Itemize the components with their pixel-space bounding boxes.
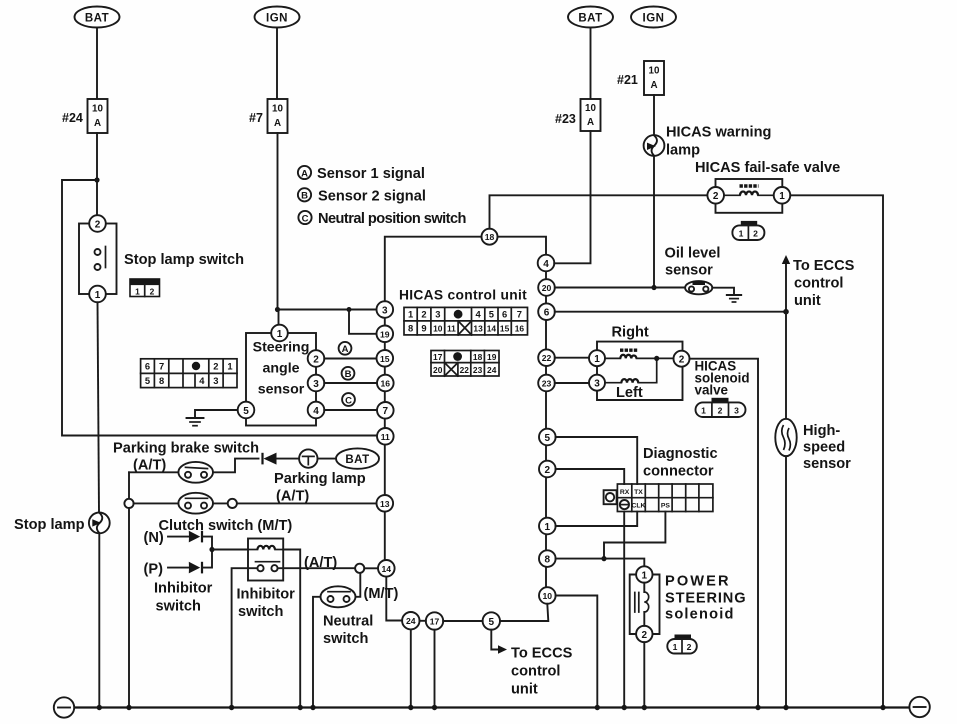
pin 8 (539, 550, 556, 567)
solenoid valve pin 1 (589, 350, 605, 366)
svg-text:BAT: BAT (85, 13, 109, 25)
svg-text:sensor: sensor (665, 263, 713, 279)
signal label C on wire (342, 393, 355, 406)
(P) diode (144, 550, 213, 578)
svg-text:20: 20 (433, 365, 443, 375)
svg-text:2: 2 (687, 642, 692, 652)
POWER STEERING solenoid box (630, 575, 660, 635)
connector circle (clutch line left) (124, 499, 133, 508)
svg-text:17: 17 (433, 352, 443, 362)
stop lamp switch connector 1 2 (130, 279, 160, 297)
wire ECCS line down to high-speed sensor (785, 312, 787, 420)
parking brake switch label (113, 441, 259, 474)
svg-text:23: 23 (542, 379, 552, 389)
svg-text:3: 3 (734, 406, 739, 416)
wire stop lamp to ground bus (98, 533, 100, 707)
wire pin 18 right down to pin 4 (498, 237, 547, 255)
HICAS warning lamp (644, 125, 772, 159)
wire sensor pin 3 to pin 16 (324, 382, 377, 384)
svg-text:1: 1 (739, 229, 744, 239)
svg-text:BAT: BAT (345, 454, 369, 466)
svg-text:High-: High- (803, 423, 840, 439)
pin 7 (377, 402, 394, 419)
svg-text:10: 10 (649, 66, 660, 77)
fuse #21 10A (617, 61, 664, 95)
svg-text:HICAS control unit: HICAS control unit (399, 288, 527, 303)
svg-text:10: 10 (92, 104, 103, 115)
svg-text:10: 10 (585, 103, 596, 114)
wire node to control unit pin 3 (278, 309, 377, 311)
wire node down to sensor pin 1 (278, 310, 280, 326)
wire pin 5 to TX (556, 437, 638, 484)
svg-text:switch: switch (238, 604, 283, 620)
svg-text:1: 1 (642, 570, 648, 581)
ground bus (74, 706, 909, 708)
svg-text:10: 10 (543, 591, 553, 601)
pin 22 (538, 349, 555, 366)
svg-text:1: 1 (673, 642, 678, 652)
signal label A on wire (339, 342, 352, 355)
pin 19 (377, 326, 394, 343)
svg-text:speed: speed (803, 440, 845, 456)
circle 17 (426, 612, 443, 629)
HICAS solenoid valve box (597, 342, 683, 400)
circle 5 (bottom) (483, 612, 500, 629)
(N) diode (144, 530, 213, 550)
control unit connector table 2 (pins 17-24) (431, 351, 499, 377)
wire oil level sensor to ground (712, 288, 734, 295)
svg-text:Clutch switch (M/T): Clutch switch (M/T) (159, 518, 293, 534)
parking brake switch symbol (178, 462, 213, 483)
pin 4 (538, 255, 555, 272)
svg-text:HICAS fail-safe valve: HICAS fail-safe valve (695, 160, 840, 176)
svg-text:14: 14 (487, 323, 497, 333)
junction dot N/P (209, 547, 214, 552)
svg-text:A: A (274, 118, 281, 129)
svg-text:2: 2 (95, 219, 101, 230)
wire warning lamp down to oil level sensor wire (653, 156, 655, 288)
legend A sensor 1 signal (298, 166, 425, 182)
wire branch left and down to circle 11 (62, 180, 376, 436)
svg-text:2: 2 (753, 229, 758, 239)
connector circle (clutch line right) (228, 499, 237, 508)
svg-text:(P): (P) (144, 562, 164, 578)
pin 10 (539, 587, 556, 604)
svg-text:Sensor 2 signal: Sensor 2 signal (318, 188, 426, 204)
svg-text:24: 24 (406, 616, 416, 626)
svg-text:A: A (342, 344, 349, 355)
svg-text:Inhibitor: Inhibitor (237, 587, 296, 603)
fail-safe valve connector 1 2 (732, 221, 764, 240)
diagnostic connector table (617, 484, 713, 512)
neutral switch (321, 586, 374, 647)
svg-text:1: 1 (545, 522, 551, 533)
wire pin 22 to valve pin 1 (555, 357, 589, 359)
ground (oil level sensor) (727, 295, 741, 302)
svg-text:4: 4 (475, 309, 481, 320)
wire IGN to fuse #7 (276, 28, 278, 100)
svg-text:8: 8 (408, 322, 413, 333)
svg-text:3: 3 (213, 375, 218, 386)
svg-text:HICAS warning: HICAS warning (666, 125, 771, 141)
svg-text:4: 4 (543, 259, 549, 270)
svg-text:IGN: IGN (266, 13, 288, 25)
bus junction dots (97, 705, 886, 710)
steering angle sensor connector (141, 359, 237, 388)
svg-text:Neutral: Neutral (323, 614, 373, 630)
right coil (605, 350, 674, 358)
wire circle 5 down + To ECCS arrow (bottom) (491, 630, 572, 698)
wire sensor pin 4 to pin 7 (324, 409, 377, 411)
solenoid valve pin 3 (589, 375, 605, 391)
svg-text:CLK: CLK (632, 503, 646, 510)
HICAS solenoid valve label (695, 359, 750, 398)
control unit pin column left: chain wire (384, 318, 386, 560)
svg-text:22: 22 (460, 365, 470, 375)
svg-text:1: 1 (95, 290, 101, 301)
svg-text:18: 18 (485, 232, 495, 242)
fuse #23 10A (555, 99, 601, 131)
solenoid coil symbol (635, 583, 649, 626)
svg-text:15: 15 (380, 354, 390, 364)
svg-text:Stop lamp: Stop lamp (14, 517, 85, 533)
wire parking brake to diode (213, 459, 259, 473)
svg-text:2: 2 (642, 630, 648, 641)
oil level sensor (665, 246, 721, 295)
svg-text:2: 2 (545, 465, 551, 476)
svg-text:control: control (794, 276, 843, 292)
wire BAT to fuse #23 (590, 28, 592, 100)
wire sensor pin 2 to pin 15 (324, 358, 376, 360)
solenoid valve connector 1 2 3 (696, 398, 746, 417)
svg-text:5: 5 (489, 309, 494, 320)
wire 17 to 5 (443, 620, 482, 622)
svg-text:sensor: sensor (803, 456, 851, 472)
svg-text:9: 9 (421, 322, 426, 333)
svg-text:2: 2 (679, 355, 685, 366)
power source BAT (top left) (75, 7, 120, 28)
svg-text:IGN: IGN (643, 13, 665, 25)
svg-text:(A/T): (A/T) (276, 489, 309, 505)
svg-text:16: 16 (381, 379, 391, 389)
svg-text:TX: TX (634, 489, 643, 496)
wire pin 2 to RX (556, 469, 625, 484)
svg-text:5: 5 (243, 406, 249, 417)
left coil (605, 358, 657, 382)
svg-text:B: B (301, 191, 308, 202)
diagnostic connector keying square (604, 490, 617, 504)
svg-text:4: 4 (313, 406, 319, 417)
svg-text:19: 19 (380, 329, 390, 339)
wire inhibitor contact right to circle 14 (278, 567, 355, 569)
svg-text:RX: RX (620, 489, 630, 496)
svg-text:Sensor 1 signal: Sensor 1 signal (317, 166, 425, 182)
svg-text:1: 1 (135, 287, 140, 297)
svg-text:13: 13 (380, 499, 390, 509)
svg-text:Diagnostic: Diagnostic (643, 446, 718, 462)
svg-text:24: 24 (487, 365, 497, 375)
wire BAT to fuse #24 (96, 28, 98, 100)
junction dot pin6/ECCS (783, 309, 789, 315)
svg-text:22: 22 (542, 353, 552, 363)
pin 13 (377, 495, 394, 512)
svg-text:A: A (650, 80, 657, 91)
svg-text:Parking brake switch: Parking brake switch (113, 441, 259, 457)
wire parking brake left lead (129, 471, 179, 473)
solenoid pin 2 (636, 626, 652, 642)
control unit connector table 1 (pins 1-16) (404, 307, 528, 335)
svg-text:#23: #23 (555, 112, 576, 126)
svg-text:2: 2 (713, 191, 719, 202)
svg-text:1: 1 (701, 406, 706, 416)
wire pin 14 down to circle 24 (386, 577, 402, 621)
svg-text:(M/T): (M/T) (364, 586, 399, 602)
svg-text:1: 1 (779, 191, 785, 202)
svg-text:11: 11 (381, 432, 390, 442)
wire clutch line to pin 13 (134, 502, 376, 504)
svg-text:18: 18 (473, 352, 483, 362)
pin 23 (538, 375, 555, 392)
wire pin 6 right to ECCS line (555, 311, 786, 313)
svg-text:(N): (N) (144, 530, 164, 546)
wire circle 24 down to bus (410, 629, 412, 707)
svg-text:2: 2 (213, 361, 218, 372)
svg-text:2: 2 (718, 406, 723, 416)
pin 16 (377, 375, 394, 392)
pin 5 (right column) (539, 429, 556, 446)
pin 11 (377, 428, 394, 445)
clutch switch symbol (159, 493, 293, 534)
node junction IGN feed (275, 307, 280, 312)
svg-text:Oil level: Oil level (665, 246, 721, 262)
svg-text:C: C (345, 395, 352, 406)
svg-text:sensor: sensor (258, 382, 305, 398)
fuse #24 10A (62, 99, 108, 133)
pin 1 (right column) (539, 518, 556, 535)
junction dot PS/pin8 wire (601, 556, 606, 561)
POWER STEERING solenoid label (665, 574, 746, 623)
wire fail-safe valve pin 1 right and down to bus (790, 195, 883, 707)
svg-text:14: 14 (382, 564, 392, 574)
control unit pin column right: chain wire (545, 271, 547, 604)
steering angle sensor (238, 325, 325, 426)
wire branch down to pin 19 (349, 310, 377, 334)
wire pin 10 chain down to circle 5 wire (500, 604, 548, 621)
pin 3 (377, 301, 394, 318)
wire pin 8 to power steering solenoid pin 1 (556, 559, 645, 567)
svg-text:23: 23 (473, 365, 483, 375)
wire fuse #21 to warning lamp (653, 95, 655, 135)
svg-text:Stop lamp switch: Stop lamp switch (124, 252, 244, 268)
diagnostic connector label (643, 446, 718, 480)
pin 14 (378, 560, 395, 577)
pin 6 (538, 303, 555, 320)
svg-text:3: 3 (435, 309, 440, 320)
svg-text:1: 1 (408, 309, 413, 320)
junction dot branch to circle 11 (94, 177, 99, 182)
svg-text:Right: Right (612, 325, 649, 341)
svg-text:2: 2 (150, 287, 155, 297)
svg-text:11: 11 (447, 323, 456, 333)
legend B sensor 2 signal (298, 188, 426, 204)
svg-text:PS: PS (661, 503, 671, 510)
wire high-speed sensor down to bus (785, 456, 787, 707)
high-speed sensor (775, 419, 851, 472)
wire stop lamp switch pin1 down to stop lamp (98, 302, 100, 512)
svg-text:13: 13 (473, 323, 483, 333)
svg-text:connector: connector (643, 464, 714, 480)
power source BAT (top right) (568, 7, 613, 28)
wire inhibitor contact left down to bus (232, 568, 258, 707)
wire fuse #24 to stop lamp switch pin 2 (96, 133, 98, 216)
pin 2 (right column) (539, 461, 556, 478)
svg-text:8: 8 (159, 375, 164, 386)
svg-text:A: A (587, 117, 594, 128)
inhibitor switch box (A/T) (237, 539, 296, 621)
svg-text:(A/T): (A/T) (304, 555, 337, 571)
svg-text:valve: valve (695, 383, 729, 398)
svg-text:6: 6 (544, 308, 550, 319)
stop lamp (14, 513, 110, 534)
svg-text:7: 7 (517, 309, 522, 320)
svg-text:3: 3 (382, 305, 388, 316)
pin 20 (538, 279, 555, 296)
svg-text:7: 7 (383, 406, 389, 417)
svg-text:10: 10 (433, 323, 443, 333)
legend C neutral position switch (298, 211, 466, 227)
power source BAT (parking lamp) (336, 448, 379, 468)
wire inhibitor coil right down to bus (283, 550, 300, 708)
svg-text:17: 17 (430, 617, 440, 627)
To ECCS control unit (top) arrow (782, 255, 855, 312)
power source IGN (top right, unconnected) (631, 7, 676, 28)
ground (steering sensor) (187, 418, 204, 426)
stop lamp switch (79, 215, 244, 302)
svg-text:20: 20 (542, 283, 552, 293)
svg-text:#7: #7 (249, 111, 263, 125)
solenoid valve pin 2 (674, 351, 690, 367)
wire pin 20 to oil level sensor (555, 287, 686, 289)
svg-text:4: 4 (199, 375, 205, 386)
circle 24 (402, 612, 419, 629)
pin 18 (482, 229, 498, 245)
svg-text:(A/T): (A/T) (133, 458, 166, 474)
wire connector circle to circle 14 (364, 567, 378, 569)
wire neutral switch left down to bus (313, 597, 321, 708)
wire fuse #23 down to pin 4 (554, 131, 590, 263)
wire valve pin 2 right and down to bus (690, 359, 759, 708)
svg-text:unit: unit (511, 682, 538, 698)
svg-text:solenoid: solenoid (665, 607, 735, 623)
svg-text:lamp: lamp (666, 143, 700, 159)
wire pin 18 up to fail-safe valve pin 2 (490, 195, 708, 228)
svg-text:3: 3 (594, 379, 600, 390)
svg-text:switch: switch (323, 631, 368, 647)
svg-text:Neutral position switch: Neutral position switch (318, 211, 467, 227)
svg-text:19: 19 (487, 352, 497, 362)
svg-text:5: 5 (145, 375, 150, 386)
wire sensor pin 5 to ground (195, 410, 238, 418)
svg-text:7: 7 (159, 361, 164, 372)
svg-text:8: 8 (545, 554, 551, 565)
svg-text:16: 16 (515, 323, 525, 333)
wire between 24 and 17 (420, 620, 426, 622)
power steering connector 1 2 (667, 635, 697, 654)
svg-text:BAT: BAT (578, 13, 602, 25)
connector circle (neutral node) (355, 564, 364, 573)
power source IGN (top left) (255, 7, 300, 28)
svg-text:#21: #21 (617, 73, 638, 87)
svg-text:To ECCS: To ECCS (511, 646, 573, 662)
svg-text:5: 5 (545, 433, 551, 444)
wire pin 10 right and down to bus (556, 596, 598, 708)
svg-text:2: 2 (421, 309, 426, 320)
ground terminal left (54, 697, 74, 717)
wire parking brake branch from connector circle (128, 472, 130, 707)
svg-text:#24: #24 (62, 111, 83, 125)
wire circle 17 down to bus (434, 630, 436, 708)
svg-text:6: 6 (502, 309, 507, 320)
svg-text:Steering: Steering (253, 340, 310, 356)
svg-text:6: 6 (145, 361, 150, 372)
wire pin 1 to CLK (556, 512, 638, 526)
svg-text:STEERING: STEERING (665, 591, 746, 607)
junction dot coils (654, 356, 659, 361)
svg-text:Parking lamp: Parking lamp (274, 471, 366, 487)
parking lamp (274, 449, 366, 504)
solenoid pin 1 (636, 566, 652, 582)
diode (parking lamp) (263, 453, 300, 465)
wire neutral switch right up to connector circle (356, 573, 361, 597)
wire pin 23 to valve pin 3 (555, 382, 589, 384)
signal label B on wire (342, 367, 355, 380)
pin 15 (377, 350, 394, 367)
HICAS fail-safe valve (695, 160, 840, 213)
svg-text:control: control (511, 664, 560, 680)
svg-text:A: A (301, 168, 308, 179)
fuse #7 10A (249, 99, 288, 133)
svg-text:5: 5 (489, 617, 495, 628)
svg-text:1: 1 (227, 361, 232, 372)
wire diag minus cell down to bus (623, 512, 625, 708)
wire solenoid pin 2 down to bus (643, 642, 645, 707)
svg-text:15: 15 (500, 323, 510, 333)
svg-text:unit: unit (794, 293, 821, 309)
wire fuse #7 down to node (277, 133, 279, 310)
wire lamp to BAT (318, 458, 337, 460)
svg-text:To ECCS: To ECCS (793, 258, 855, 274)
junction dot pin19 feed (347, 307, 352, 312)
wire diag PS cell to pin 8 net (604, 512, 665, 559)
inhibitor switch label (M/T diodes) (154, 581, 213, 615)
junction dot lamp/pin20 wire (651, 285, 656, 290)
svg-text:10: 10 (272, 104, 283, 115)
wire N/P junction to inhibitor box (212, 549, 248, 551)
svg-text:B: B (345, 369, 352, 380)
svg-text:1: 1 (277, 329, 283, 340)
svg-text:Left: Left (616, 385, 643, 401)
ground terminal right (909, 697, 929, 717)
svg-text:A: A (94, 118, 101, 129)
svg-text:POWER: POWER (665, 574, 731, 590)
svg-text:Inhibitor: Inhibitor (154, 581, 213, 597)
svg-text:angle: angle (262, 361, 299, 377)
svg-text:1: 1 (594, 354, 600, 365)
svg-text:2: 2 (313, 354, 319, 365)
svg-text:3: 3 (313, 379, 319, 390)
wire pin 18 left down to pin 3 (385, 237, 482, 302)
svg-text:switch: switch (156, 599, 201, 615)
